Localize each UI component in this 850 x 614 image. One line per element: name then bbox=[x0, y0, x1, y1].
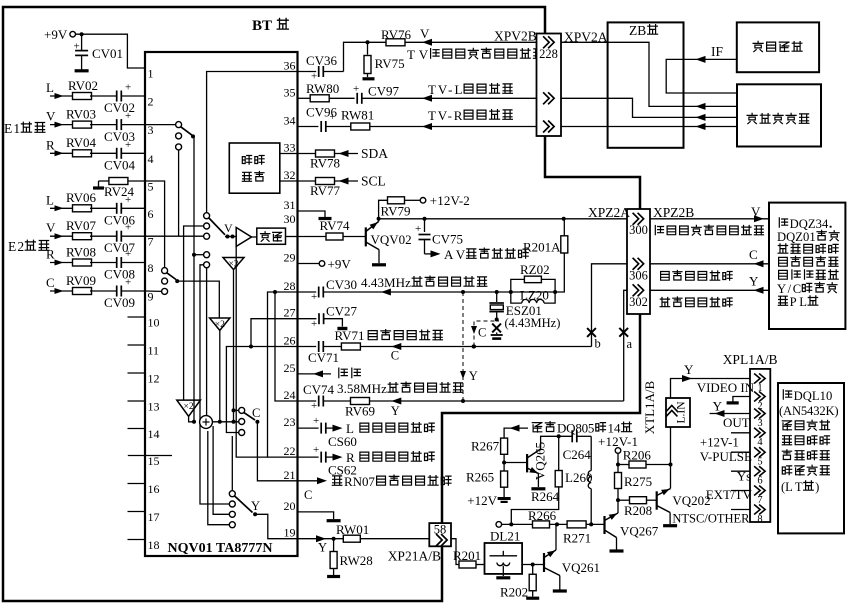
svg-text:(AN5432K): (AN5432K) bbox=[779, 404, 839, 418]
resistor RV07 bbox=[66, 218, 116, 240]
svg-text:): ) bbox=[815, 480, 819, 494]
svg-text:XPV2B: XPV2B bbox=[494, 29, 537, 44]
svg-text:+: + bbox=[313, 444, 319, 456]
svg-text:306: 306 bbox=[629, 269, 648, 283]
svg-text:XTL1A/B: XTL1A/B bbox=[642, 380, 657, 434]
wire VQV02 collector node bbox=[377, 217, 381, 222]
pin 31 bbox=[284, 198, 296, 212]
ground at pin 20 bbox=[298, 512, 341, 521]
resistor RV08 bbox=[66, 245, 116, 267]
capacitor CV75 bbox=[415, 219, 463, 254]
svg-text:RV09: RV09 bbox=[66, 273, 96, 288]
resistor RV74 bbox=[298, 218, 366, 240]
wire pin7 to switch S2 bbox=[145, 235, 204, 237]
ground at CV01 bbox=[75, 69, 89, 72]
wire IF out to main IF bbox=[684, 92, 738, 94]
svg-text:RW01: RW01 bbox=[336, 522, 369, 537]
pin 19 bbox=[284, 526, 296, 540]
internal wire S2 circle5 feed bbox=[200, 265, 229, 504]
arrow AV monitor output bbox=[425, 247, 529, 262]
PL board text bbox=[777, 217, 839, 309]
svg-text:R271: R271 bbox=[563, 531, 591, 546]
svg-text:+: + bbox=[311, 318, 317, 330]
wire VQ267 collector bbox=[616, 498, 620, 513]
svg-text:R201A: R201A bbox=[523, 240, 561, 255]
svg-text:+: + bbox=[125, 222, 131, 234]
+12V-1 terminal bbox=[598, 434, 638, 472]
svg-text:XPZ2A: XPZ2A bbox=[588, 205, 630, 220]
svg-text:+: + bbox=[125, 248, 131, 260]
internal wire switch S1 output bbox=[193, 136, 194, 421]
svg-text:18: 18 bbox=[148, 538, 160, 552]
switch S2 V select bbox=[204, 213, 237, 268]
svg-text:TV: TV bbox=[407, 47, 429, 62]
pin 28 bbox=[284, 279, 296, 293]
svg-text:DQZ01: DQZ01 bbox=[777, 230, 816, 244]
resistor RV76 bbox=[381, 27, 412, 46]
capacitor CS60 bbox=[298, 415, 357, 449]
svg-text:RV77: RV77 bbox=[310, 183, 341, 198]
+12V-2 terminal bbox=[420, 193, 470, 208]
internal wire summer output bbox=[212, 421, 238, 423]
svg-text:×2: ×2 bbox=[215, 320, 225, 330]
svg-text:RV03: RV03 bbox=[66, 107, 96, 122]
pin 15 bbox=[128, 454, 172, 468]
internal wire X1 output bbox=[232, 270, 236, 424]
svg-text:a: a bbox=[627, 337, 633, 351]
capacitor to ground below ESZ01 bbox=[491, 333, 503, 339]
transistor VQ261 bbox=[544, 550, 600, 590]
wire ZB internal TV-R route bbox=[608, 126, 684, 128]
svg-text:V: V bbox=[420, 26, 430, 41]
svg-text:Y/C: Y/C bbox=[777, 282, 801, 296]
pin 10 bbox=[128, 316, 160, 330]
svg-text:20: 20 bbox=[284, 499, 296, 513]
resistor RW80 bbox=[298, 81, 355, 102]
svg-text:6: 6 bbox=[148, 207, 154, 221]
svg-text:+: + bbox=[313, 415, 319, 427]
BT board border (main board outline) bbox=[3, 7, 640, 601]
svg-text:R275: R275 bbox=[624, 474, 652, 489]
svg-text:Y: Y bbox=[469, 369, 478, 383]
label XTL1A/B bbox=[642, 380, 657, 434]
resistor RV75 bbox=[364, 42, 405, 77]
connector XTL1A/B L.IN bbox=[666, 398, 690, 427]
arrow Y at pin 19 bbox=[298, 535, 430, 554]
pin 22 bbox=[284, 444, 296, 458]
svg-text:+: + bbox=[311, 400, 317, 412]
multiplier X2 x2 bbox=[210, 318, 230, 330]
+9V terminal at pin 29 bbox=[298, 257, 352, 272]
resistor R267 bbox=[471, 438, 508, 454]
ground at R202 bbox=[526, 597, 539, 600]
svg-text:CV27: CV27 bbox=[326, 304, 358, 319]
svg-text:R202: R202 bbox=[500, 585, 528, 600]
svg-text:RW81: RW81 bbox=[341, 108, 374, 123]
capacitor CV27 bbox=[298, 304, 358, 331]
label EXT/TV bbox=[706, 487, 753, 502]
wire XPL pin5 bbox=[731, 451, 750, 453]
svg-text:+9V: +9V bbox=[328, 257, 352, 272]
svg-text:35: 35 bbox=[284, 85, 296, 99]
svg-text:TV-R: TV-R bbox=[428, 108, 463, 123]
svg-text:LZ20: LZ20 bbox=[520, 288, 549, 303]
pin 26 bbox=[284, 334, 296, 348]
svg-text:V: V bbox=[46, 109, 56, 124]
svg-text:RV69: RV69 bbox=[345, 404, 375, 419]
svg-text:CS60: CS60 bbox=[328, 434, 357, 449]
arrow R audio output bbox=[333, 450, 435, 465]
resistor RV79 bbox=[379, 197, 421, 219]
svg-text:RZ02: RZ02 bbox=[520, 262, 550, 277]
pin 18 bbox=[128, 538, 160, 552]
svg-text:+: + bbox=[125, 82, 131, 94]
svg-text:27: 27 bbox=[284, 306, 296, 320]
arrow Y OUT at XPL pin3 bbox=[710, 410, 750, 417]
arrow chroma input bbox=[391, 343, 402, 363]
wire 58 connector to R201 bbox=[451, 539, 459, 565]
svg-text:XPL1A/B: XPL1A/B bbox=[723, 352, 778, 367]
svg-text:17: 17 bbox=[148, 510, 160, 524]
svg-text:+12V-2: +12V-2 bbox=[430, 193, 470, 208]
svg-text:CV75: CV75 bbox=[432, 232, 463, 247]
amplifier A1 video bbox=[236, 228, 251, 247]
internal wire pin36 rail bbox=[207, 72, 298, 213]
svg-text:R201: R201 bbox=[453, 548, 481, 563]
svg-text:RV78: RV78 bbox=[310, 156, 340, 171]
label from DQ805 pin14 bbox=[532, 421, 631, 436]
pin 20 bbox=[284, 499, 296, 513]
wire bus interface to pin 33 bbox=[280, 153, 298, 155]
inductor L260 bbox=[565, 436, 592, 524]
svg-text:SCL: SCL bbox=[361, 174, 386, 189]
svg-text:RW28: RW28 bbox=[340, 553, 373, 568]
ground at XPL pin2 bbox=[727, 397, 750, 403]
svg-text:22: 22 bbox=[284, 444, 296, 458]
switch S4 chroma out bbox=[234, 406, 261, 436]
summer node bbox=[200, 416, 213, 429]
svg-text:C: C bbox=[304, 488, 312, 502]
wire ZB internal IF route bbox=[666, 59, 683, 93]
resistor R266 bbox=[528, 508, 567, 528]
resistor RV03 bbox=[66, 107, 116, 129]
capacitor CV36 bbox=[298, 53, 344, 83]
main tuner label bbox=[753, 41, 802, 51]
svg-text:E2: E2 bbox=[8, 239, 24, 254]
wire XPV2A TV-L line bbox=[561, 97, 608, 99]
svg-text:Ys: Ys bbox=[737, 469, 751, 484]
wire DL21 to VQ261 bbox=[522, 563, 544, 567]
wire main IF line 1 arrow bbox=[684, 103, 738, 110]
clamp block bbox=[252, 228, 298, 244]
wire XPL pin4 bbox=[731, 432, 750, 434]
ground at CV27 bbox=[337, 327, 347, 330]
arrow 3.58MHz luma input bbox=[391, 398, 402, 419]
wire pin5 to switch S3 bbox=[145, 181, 165, 268]
wire VQ265 collector bbox=[541, 434, 573, 449]
svg-text:RW80: RW80 bbox=[306, 81, 339, 96]
terminal DL21 input bbox=[496, 522, 533, 528]
+9V supply terminal bbox=[44, 27, 84, 42]
pin 12 bbox=[128, 372, 160, 386]
capacitor CV96 bbox=[298, 105, 338, 133]
svg-text:302: 302 bbox=[629, 295, 648, 309]
capacitor CV03 bbox=[104, 110, 145, 144]
switch S5 luma out bbox=[229, 491, 260, 528]
svg-text:19: 19 bbox=[284, 526, 296, 540]
wire XPL pin7 bbox=[731, 490, 750, 492]
wire V line to XPZ2A bbox=[379, 217, 627, 221]
main IF circuit label bbox=[747, 113, 809, 123]
svg-text:29: 29 bbox=[284, 251, 296, 265]
svg-text:+: + bbox=[125, 110, 131, 122]
resistor RV24 on pin 5 bbox=[99, 178, 146, 200]
svg-text:+: + bbox=[125, 194, 131, 206]
resistor R206 bbox=[618, 448, 673, 469]
pin 13 bbox=[128, 400, 160, 414]
svg-text:4: 4 bbox=[757, 437, 763, 448]
svg-text:VIDEO IN: VIDEO IN bbox=[697, 380, 755, 395]
svg-text:Y: Y bbox=[391, 404, 400, 418]
pin 7 bbox=[148, 235, 154, 249]
svg-text:C: C bbox=[478, 326, 486, 340]
svg-text:V: V bbox=[224, 221, 233, 235]
svg-text:25: 25 bbox=[284, 361, 296, 375]
wire XPV2A TV-R line bbox=[561, 126, 608, 128]
svg-text:23: 23 bbox=[284, 415, 296, 429]
svg-text:C: C bbox=[391, 349, 399, 363]
supply +12V at R265 bbox=[467, 487, 510, 508]
label VIDEO IN bbox=[697, 380, 755, 395]
pin 36 bbox=[284, 59, 296, 73]
svg-text:IF: IF bbox=[711, 44, 723, 59]
label luma output bbox=[660, 297, 732, 307]
internal wire amp branch to pin22 row bbox=[236, 246, 267, 457]
svg-text:R265: R265 bbox=[466, 470, 494, 485]
break mark b bbox=[587, 328, 601, 350]
svg-text:21: 21 bbox=[284, 468, 296, 482]
ground at DL21 bbox=[496, 576, 510, 579]
ground at RV24 bbox=[93, 181, 104, 188]
resistor RV78 SDA bbox=[298, 150, 359, 171]
svg-text:26: 26 bbox=[284, 334, 296, 348]
svg-text:C264: C264 bbox=[563, 447, 592, 462]
ZB board box bbox=[608, 22, 684, 147]
wire RV76 to XPV2B bbox=[405, 41, 537, 43]
arrow SDA bbox=[339, 146, 389, 161]
crystal ESZ01 bbox=[489, 292, 542, 322]
svg-text:AV: AV bbox=[444, 247, 466, 262]
svg-text:8: 8 bbox=[757, 514, 762, 525]
wire base node to VQ265 bbox=[504, 462, 527, 464]
wire XPV2A 228 line bbox=[561, 41, 608, 43]
svg-text:Y: Y bbox=[251, 499, 260, 513]
pin 34 bbox=[284, 114, 296, 128]
ZB board label bbox=[629, 23, 658, 38]
wire bus interface to pin 32 bbox=[280, 180, 298, 182]
svg-text:Y: Y bbox=[318, 541, 327, 555]
svg-text:BT: BT bbox=[252, 18, 272, 34]
pin 24 bbox=[284, 388, 296, 402]
wire R267 to base node bbox=[502, 454, 506, 471]
svg-text:RN07: RN07 bbox=[344, 474, 375, 489]
internal wire X2 output bbox=[218, 330, 222, 423]
break mark a bbox=[619, 328, 632, 351]
wire ZB internal 228 route bbox=[608, 42, 684, 106]
capacitor CV74 bbox=[298, 382, 335, 412]
svg-text:CV36: CV36 bbox=[306, 53, 338, 68]
label chroma input bbox=[368, 330, 442, 340]
internal wire S5 output to pin19 bbox=[255, 514, 297, 538]
svg-text:10: 10 bbox=[148, 316, 160, 330]
label chroma output bbox=[661, 271, 733, 281]
svg-text:C: C bbox=[46, 275, 55, 290]
svg-text:R264: R264 bbox=[531, 489, 560, 504]
capacitor CV07 bbox=[104, 222, 145, 255]
wire ZB internal TV-L route bbox=[608, 98, 684, 117]
main tuner box bbox=[737, 22, 819, 72]
svg-text:+: + bbox=[125, 277, 131, 289]
transistor VQV02 bbox=[366, 222, 412, 264]
input L arrow bbox=[46, 192, 74, 211]
pin 27 bbox=[284, 306, 296, 320]
svg-text:C: C bbox=[252, 406, 260, 420]
resistor RV77 SCL bbox=[298, 178, 359, 199]
pin 30 bbox=[284, 212, 296, 226]
svg-text:CV96: CV96 bbox=[306, 105, 338, 120]
svg-text:13: 13 bbox=[148, 400, 160, 414]
pin 25 bbox=[284, 361, 296, 375]
label XPV2A bbox=[564, 30, 608, 45]
svg-text:CV97: CV97 bbox=[368, 84, 400, 99]
transistor VQ265 bbox=[527, 442, 547, 487]
svg-text:CV74: CV74 bbox=[303, 382, 335, 397]
capacitor CV71 bbox=[298, 341, 340, 365]
ground at RW28 bbox=[327, 575, 340, 578]
svg-text:6: 6 bbox=[757, 476, 762, 487]
arrow TV-R input bbox=[422, 123, 432, 130]
svg-text:V: V bbox=[46, 220, 56, 235]
svg-text:L: L bbox=[46, 192, 54, 207]
svg-text:SDA: SDA bbox=[361, 146, 388, 161]
pin 32 bbox=[284, 168, 296, 182]
label TV-R input bbox=[428, 108, 512, 123]
svg-text:V-PULSE: V-PULSE bbox=[700, 449, 752, 464]
capacitor CV97 bbox=[353, 83, 537, 104]
pin 5 bbox=[148, 180, 154, 194]
BT board label bbox=[252, 18, 288, 34]
resistor RV06 bbox=[66, 190, 116, 212]
switch S3 chroma select bbox=[162, 268, 180, 295]
pin 21 bbox=[284, 468, 296, 482]
svg-text:DQZ34: DQZ34 bbox=[790, 217, 829, 231]
ground at RV75 bbox=[363, 77, 375, 80]
internal wire S3 output to X2 bbox=[177, 281, 219, 318]
label 4.43MHz bbox=[505, 316, 561, 330]
main IF circuit box bbox=[737, 84, 821, 146]
svg-text:E1: E1 bbox=[4, 121, 20, 136]
label OUT bbox=[723, 415, 750, 430]
connector XP21A/B 58 bbox=[429, 523, 451, 547]
svg-text:4.43MHz: 4.43MHz bbox=[361, 275, 411, 290]
wire chroma riser to XPZ2B 306 bbox=[592, 264, 628, 347]
resistor R265 bbox=[466, 470, 508, 488]
svg-text:R206: R206 bbox=[623, 448, 652, 463]
capacitor CV08 bbox=[104, 248, 145, 282]
internal wire X3 output to summer bbox=[189, 416, 196, 424]
resistor R271 bbox=[563, 521, 605, 546]
svg-text:Y: Y bbox=[749, 274, 759, 289]
svg-text:Y: Y bbox=[684, 362, 694, 377]
input R arrow bbox=[46, 247, 74, 266]
label 3.58MHz luma input bbox=[337, 381, 463, 396]
ground at VQ267 bbox=[610, 549, 624, 552]
pin 1 bbox=[148, 67, 154, 81]
capacitor CV01 bbox=[74, 34, 124, 69]
wire main IF line 2 arrow bbox=[684, 114, 738, 121]
internal wire switch S1 out to S2 bbox=[192, 253, 204, 257]
resistor RW81 bbox=[326, 108, 537, 131]
ground at pin 31 bbox=[298, 211, 332, 219]
svg-text:14: 14 bbox=[148, 427, 160, 441]
label Y at XPL pin2 bbox=[713, 399, 723, 414]
label XP21A/B bbox=[388, 549, 441, 564]
svg-text:XP21A/B: XP21A/B bbox=[388, 549, 441, 564]
internal wire to switch S2 upper bbox=[184, 226, 204, 400]
svg-text:RV08: RV08 bbox=[66, 245, 96, 260]
pin 8 bbox=[148, 261, 154, 275]
pin 33 bbox=[284, 141, 296, 155]
pin 4 bbox=[148, 152, 154, 166]
input L arrow bbox=[46, 80, 74, 99]
svg-text:(4.43MHz): (4.43MHz) bbox=[505, 316, 561, 330]
svg-text:L.IN: L.IN bbox=[676, 401, 688, 424]
input V arrow bbox=[46, 220, 74, 239]
transistor VQ202 bbox=[657, 489, 711, 525]
svg-text:EXT/TV: EXT/TV bbox=[706, 487, 753, 502]
wire XPL pin8 bbox=[731, 509, 750, 511]
label TV-L input bbox=[428, 82, 512, 97]
label XPV2B bbox=[494, 29, 537, 44]
svg-text:LT: LT bbox=[785, 480, 803, 494]
svg-text:XPZ2B: XPZ2B bbox=[653, 205, 694, 220]
LT board text bbox=[779, 389, 839, 494]
svg-text:12: 12 bbox=[148, 372, 160, 386]
pin 11 bbox=[128, 344, 160, 358]
multiplier X3 x2 bbox=[177, 400, 201, 416]
arrow SCL bbox=[339, 174, 386, 189]
svg-text:300: 300 bbox=[629, 223, 648, 237]
arrow TV video input bbox=[420, 26, 432, 46]
svg-text:CV71: CV71 bbox=[308, 350, 339, 365]
capacitor CS62 bbox=[298, 444, 357, 478]
svg-text:×2: ×2 bbox=[228, 260, 238, 270]
IC U1 name label NQV01 TA8777N bbox=[168, 541, 273, 556]
pin 17 bbox=[128, 510, 160, 524]
arrow L audio output bbox=[333, 421, 435, 436]
wire IF with arrow bbox=[684, 44, 737, 63]
internal wire E2-V riser to switch S1 bbox=[178, 150, 180, 236]
svg-text:DQ805: DQ805 bbox=[557, 421, 594, 436]
svg-text:L: L bbox=[46, 80, 54, 95]
delay line DL21 bbox=[485, 529, 523, 577]
svg-text:31: 31 bbox=[284, 198, 296, 212]
pin 9 bbox=[148, 290, 154, 304]
svg-text:+12V-1: +12V-1 bbox=[700, 436, 739, 450]
capacitor CV09 bbox=[104, 277, 145, 311]
svg-text:+: + bbox=[415, 223, 421, 235]
capacitor CV06 bbox=[104, 194, 145, 228]
